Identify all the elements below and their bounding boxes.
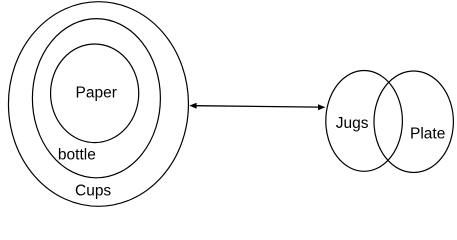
svg-text:bottle: bottle (58, 147, 96, 164)
svg-text:Jugs: Jugs (336, 115, 369, 132)
label Paper (76, 85, 117, 102)
svg-text:Paper: Paper (76, 85, 117, 102)
middle ellipse bottle (32, 19, 160, 178)
outer ellipse Cups (8, 2, 188, 207)
right ellipse Plate (374, 71, 453, 173)
left ellipse Jugs (326, 71, 403, 172)
label Jugs (336, 115, 369, 132)
label Plate (410, 126, 445, 143)
label bottle (58, 147, 96, 164)
svg-text:Plate: Plate (410, 126, 445, 143)
double-headed arrow (189, 103, 325, 111)
svg-text:Cups: Cups (75, 182, 111, 199)
inner ellipse Paper (51, 44, 139, 143)
label Cups (75, 182, 111, 199)
